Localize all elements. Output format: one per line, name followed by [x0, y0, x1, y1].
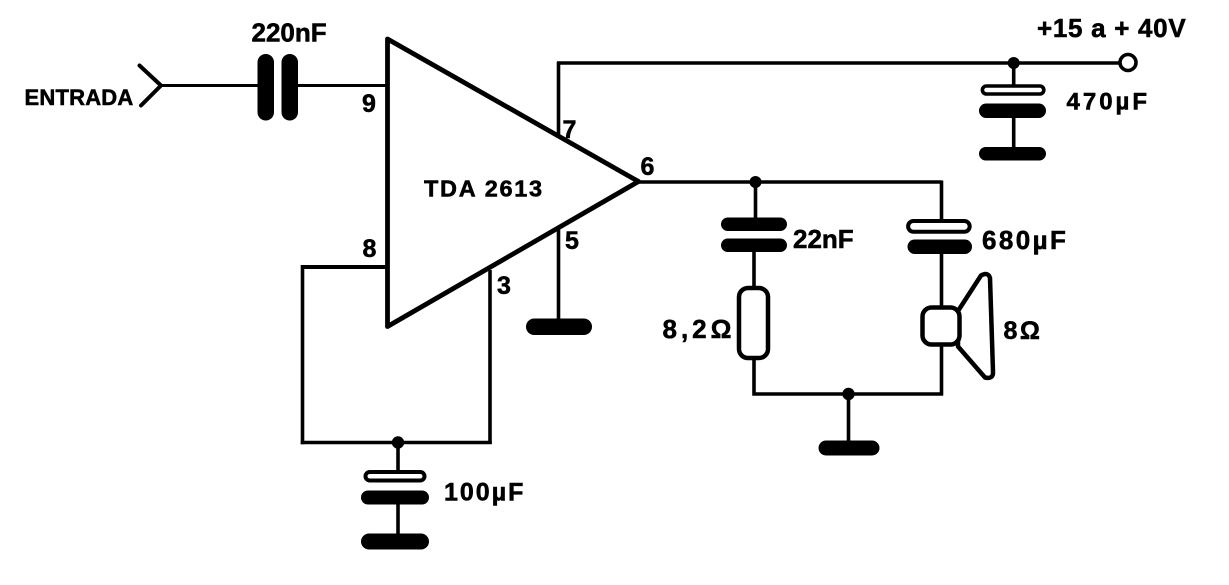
capacitor C4 470uF	[982, 86, 1043, 94]
wire: R1 to bottom node	[752, 358, 756, 396]
svg-text:6: 6	[641, 153, 655, 181]
svg-text:680µF: 680µF	[982, 225, 1068, 255]
pin 5 stub	[557, 226, 561, 322]
wire: supply node to C4	[1012, 63, 1016, 88]
wire: bottom node to ground	[847, 394, 851, 444]
wire: bottom rail	[753, 392, 944, 396]
wire: C2 to R1	[752, 251, 756, 288]
svg-text:8Ω: 8Ω	[1004, 317, 1043, 345]
wire: C1 to pin 9	[294, 84, 388, 87]
svg-text:8,2Ω: 8,2Ω	[663, 314, 736, 344]
svg-text:3: 3	[497, 272, 511, 300]
op-amp U1 TDA2613 triangle	[388, 39, 639, 327]
junction: supply node	[1008, 57, 1020, 69]
svg-text:ENTRADA: ENTRADA	[25, 85, 134, 110]
svg-text:9: 9	[362, 90, 376, 118]
resistor R1 8.2 ohm	[739, 288, 768, 358]
capacitor C3 680uF	[908, 221, 970, 232]
svg-text:5: 5	[565, 227, 579, 255]
ground below C5	[361, 534, 429, 550]
wire: speaker to bottom rail	[940, 344, 944, 396]
svg-text:100µF: 100µF	[444, 479, 525, 507]
svg-text:7: 7	[563, 116, 577, 144]
speaker LS1 cone	[958, 274, 993, 378]
wire: output node to C2	[754, 182, 758, 220]
junction: feedback node	[392, 436, 404, 448]
ground below pin 5	[526, 319, 592, 336]
svg-text:220nF: 220nF	[252, 18, 327, 48]
ground below bottom node	[819, 441, 880, 456]
svg-text:8: 8	[363, 235, 377, 263]
svg-text:470µF: 470µF	[1067, 89, 1151, 116]
svg-text:+15 a + 40V: +15 a + 40V	[1037, 13, 1186, 43]
wire: C3 to speaker	[940, 253, 944, 308]
pin 8 wire	[303, 265, 390, 269]
svg-text:TDA 2613: TDA 2613	[424, 175, 544, 201]
speaker LS1 box	[923, 308, 960, 345]
svg-text:22nF: 22nF	[793, 224, 854, 254]
junction: output node	[750, 176, 762, 188]
wire: output to C3	[940, 181, 944, 223]
wire: output pin 6	[637, 180, 942, 184]
capacitor C1 220nF plates	[258, 54, 275, 121]
input terminal arrow	[140, 66, 162, 106]
supply terminal circle	[1120, 55, 1136, 71]
wire: feedback node to C5	[396, 443, 400, 475]
wire: input arrow to C1	[160, 84, 262, 87]
wire: pin 7 to supply terminal	[557, 61, 1120, 65]
wire: feedback bottom horizontal	[301, 441, 492, 445]
ground below C4	[979, 147, 1046, 161]
junction: bottom node	[842, 388, 854, 400]
capacitor C2 22nF	[721, 218, 787, 232]
wire: feedback left vertical	[301, 265, 305, 444]
capacitor C5 100uF	[366, 472, 425, 481]
pin 3 stub	[488, 270, 492, 444]
pin 7 stub	[557, 62, 561, 138]
